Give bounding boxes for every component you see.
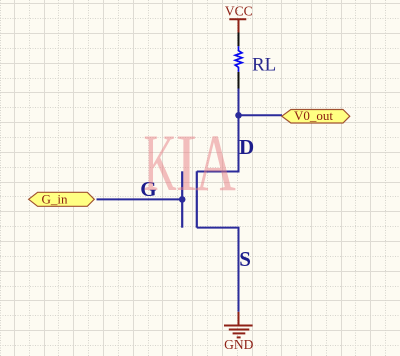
transistor Q1 drain lead — [197, 171, 240, 173]
resistor RL pin 2 — [238, 72, 240, 89]
transistor Q1 channel bar — [196, 171, 198, 227]
svg-text:I: I — [176, 118, 198, 209]
wire VCC rail to node D — [238, 89, 240, 116]
svg-text:A: A — [196, 119, 237, 209]
svg-text:G_in: G_in — [42, 191, 69, 206]
transistor Q1 gate bar — [181, 171, 183, 227]
svg-text:VCC: VCC — [225, 4, 253, 19]
svg-text:K: K — [144, 118, 177, 208]
power port VCC — [225, 4, 253, 33]
port V0_out — [282, 108, 350, 123]
svg-text:S: S — [239, 247, 251, 271]
svg-text:V0_out: V0_out — [294, 108, 333, 123]
resistor RL body — [235, 46, 242, 72]
transistor Q1 source lead — [197, 227, 240, 229]
svg-text:GND: GND — [224, 337, 253, 352]
svg-text:RL: RL — [252, 55, 276, 76]
port G_in — [29, 191, 95, 206]
junction gate dot — [179, 196, 186, 203]
wire node D to transistor drain — [238, 115, 240, 171]
resistor RL pin 1 — [238, 33, 240, 47]
ground GND — [224, 312, 254, 352]
watermark KIA — [144, 118, 237, 209]
junction node D dot — [235, 112, 242, 119]
svg-text:D: D — [239, 135, 254, 159]
wire source to ground — [238, 228, 240, 312]
wire node D to port V0_out — [239, 114, 283, 116]
wire port G_in to gate — [97, 198, 183, 200]
